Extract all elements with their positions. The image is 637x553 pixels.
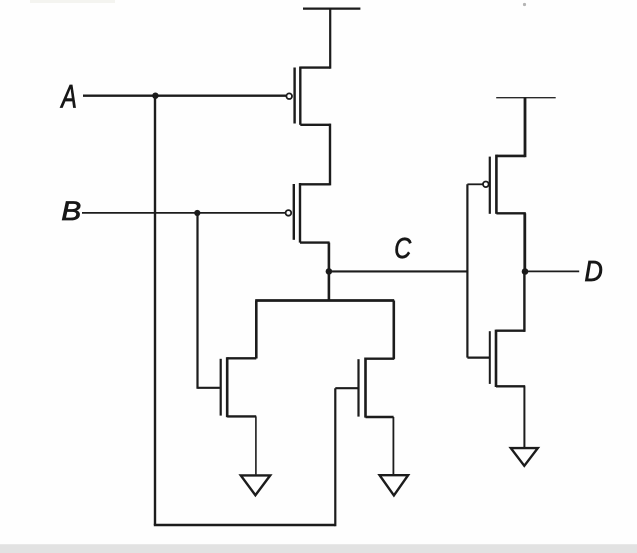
VDD rail stage 1 bbox=[303, 7, 360, 9]
wire bus left vertical to M3 drain bbox=[255, 301, 258, 359]
scan artifact top smudge bbox=[30, 0, 115, 3]
wire M6 source down to ground bbox=[523, 386, 525, 447]
node B junction dot bbox=[194, 210, 200, 216]
svg-text:B: B bbox=[61, 197, 81, 226]
wire VDD to M1 source bbox=[329, 9, 331, 69]
wire inverter gate lead from bubble bbox=[467, 183, 483, 185]
pmos M5 (inverter) bbox=[483, 155, 526, 214]
nmos M6 (inverter) bbox=[490, 330, 525, 387]
wire M5 drain down to node D bbox=[523, 213, 526, 272]
bottom gray band bbox=[0, 544, 637, 553]
wire B input horizontal bbox=[82, 212, 285, 214]
wire inverter nmos gate lead bbox=[467, 357, 489, 359]
label A bbox=[60, 78, 77, 115]
pmos M2 (gate B) bbox=[286, 183, 330, 243]
VDD rail stage 2 bbox=[496, 97, 556, 99]
svg-text:D: D bbox=[585, 255, 603, 288]
wire M3 source down to ground bbox=[255, 416, 257, 474]
wire A vertical down left side bbox=[154, 96, 156, 525]
wire node C down to nmos bus bbox=[328, 271, 331, 300]
wire bus right vertical to M4 drain bbox=[392, 301, 395, 359]
scan artifact top right dash bbox=[523, 3, 526, 6]
wire nmos drain bus horizontal bbox=[255, 299, 394, 302]
wire vertical up to M4 gate bbox=[334, 388, 336, 526]
wire M2 drain down to node C bbox=[328, 243, 331, 272]
wire M1 drain to M2 source bbox=[329, 124, 331, 186]
ground symbol 3 bbox=[511, 448, 538, 466]
wire inverter gate vertical bbox=[466, 184, 468, 357]
label C bbox=[394, 232, 411, 265]
label B bbox=[61, 197, 81, 226]
wire M4 source down to ground bbox=[392, 417, 394, 474]
node C junction dot bbox=[326, 268, 333, 275]
svg-text:A: A bbox=[60, 78, 77, 115]
wire bottom rail A to M4 gate bbox=[154, 524, 335, 526]
nmos M3 (gate B, left) bbox=[198, 357, 257, 417]
node D junction dot bbox=[522, 268, 529, 275]
wire node D output bbox=[525, 270, 579, 272]
label D bbox=[585, 255, 603, 288]
svg-text:C: C bbox=[394, 232, 411, 265]
wire node C to inverter input bbox=[329, 270, 467, 272]
pmos M1 (gate A) bbox=[286, 67, 330, 125]
ground symbol 2 bbox=[380, 475, 409, 495]
wire A input horizontal bbox=[83, 95, 286, 97]
wire B vertical down to M3 gate bbox=[196, 213, 198, 389]
wire VDD2 to M5 source bbox=[524, 98, 527, 158]
wire M6 drain up to node D bbox=[523, 271, 525, 331]
node A junction dot bbox=[152, 93, 158, 99]
ground symbol 1 bbox=[241, 475, 270, 495]
nmos M4 (gate A, right) bbox=[335, 358, 394, 418]
